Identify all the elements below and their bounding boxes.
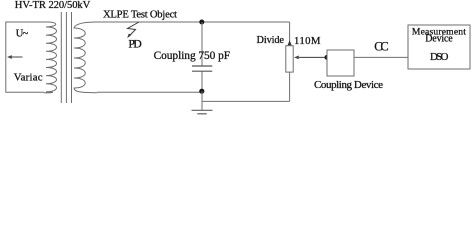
svg-text:110M: 110M [294, 35, 321, 47]
PD lightning arrow [128, 22, 140, 37]
capacitor C coupling plates [192, 65, 212, 67]
transformer primary winding [44, 22, 57, 93]
junction node at coupling device [325, 55, 330, 60]
transformer core [60, 12, 62, 103]
svg-text:U~: U~ [16, 28, 29, 39]
variac wiper arrow [11, 56, 23, 58]
secondary bottom wire [97, 91, 202, 93]
CC wire [354, 56, 408, 58]
resistor R divider 110M [286, 46, 293, 72]
svg-text:HV-TR 220/50kV: HV-TR 220/50kV [15, 0, 91, 11]
svg-text:Device: Device [425, 34, 453, 45]
tap arrow wire to coupling device [299, 56, 327, 58]
measurement device box [408, 25, 470, 69]
variac source loop (U~ box outline) [6, 22, 49, 92]
svg-text:DSO: DSO [430, 51, 449, 63]
junction node bottom [199, 89, 204, 94]
ground lead [201, 91, 203, 110]
svg-text:Coupling 750 pF: Coupling 750 pF [154, 50, 231, 62]
svg-text:CC: CC [374, 40, 388, 54]
svg-text:Divide: Divide [257, 35, 285, 46]
divider bottom lead [289, 72, 291, 101]
svg-text:PD: PD [128, 37, 142, 51]
svg-text:Variac: Variac [14, 72, 43, 84]
divider top lead wire [289, 22, 291, 46]
ground [192, 109, 213, 111]
current arrow on divider lead [288, 40, 292, 45]
svg-text:Coupling Device: Coupling Device [314, 79, 383, 91]
divider return wire [202, 100, 290, 102]
svg-text:XLPE Test Object: XLPE Test Object [103, 9, 177, 20]
transformer secondary winding [74, 22, 97, 93]
coupling capacitor bottom lead [201, 71, 203, 91]
coupling device box [327, 50, 354, 76]
coupling capacitor top lead [201, 22, 203, 66]
top HV wire [95, 21, 290, 23]
junction node top [199, 20, 204, 25]
